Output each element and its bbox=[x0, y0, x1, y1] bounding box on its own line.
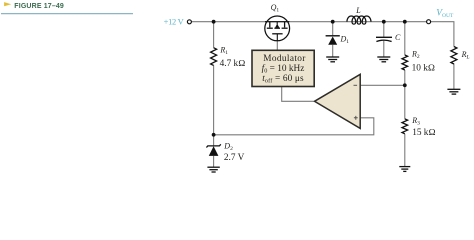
wire: D2 cathode to ground bbox=[213, 156, 215, 167]
svg-text:C: C bbox=[395, 33, 401, 42]
resistor RL bbox=[451, 47, 457, 65]
ground under C bbox=[377, 57, 390, 62]
wire: R3 lower lead to ground bbox=[404, 134, 406, 167]
svg-text:R3: R3 bbox=[411, 116, 420, 127]
figure title underline bbox=[1, 13, 133, 15]
svg-text:L: L bbox=[355, 6, 361, 15]
node: +12V input terminal bbox=[187, 20, 191, 24]
svg-text:10 kΩ: 10 kΩ bbox=[412, 63, 435, 73]
junction: zener reference node bbox=[212, 133, 216, 137]
wire: top rail from +12V terminal to RL corner bbox=[192, 22, 454, 47]
svg-text:2.7 V: 2.7 V bbox=[224, 153, 245, 163]
svg-text:4.7 kΩ: 4.7 kΩ bbox=[220, 59, 246, 69]
op-amp - sign bbox=[354, 84, 358, 86]
wire: D1 lower lead to ground bbox=[332, 45, 334, 57]
svg-text:VOUT: VOUT bbox=[436, 8, 454, 18]
wire: op-amp output to modulator bbox=[282, 87, 314, 102]
ground under RL bbox=[447, 89, 460, 94]
wire: R2 lower lead / R3 upper lead bbox=[404, 70, 406, 119]
inductor L bbox=[347, 16, 371, 24]
wire: RL lower lead to ground bbox=[453, 64, 455, 90]
svg-text:D2: D2 bbox=[223, 142, 233, 153]
svg-text:R2: R2 bbox=[411, 49, 420, 60]
zener diode D2 bbox=[206, 144, 220, 156]
svg-text:RL: RL bbox=[461, 50, 470, 61]
resistor R2 bbox=[402, 55, 408, 70]
op-amp + sign bbox=[354, 116, 358, 120]
op-amp U2 bbox=[315, 74, 361, 128]
wire: R2 upper lead bbox=[404, 22, 406, 55]
svg-text:Modulator: Modulator bbox=[263, 54, 306, 64]
capacitor C bbox=[376, 37, 392, 41]
junction: R2 tap bbox=[403, 20, 407, 24]
junction: C tap bbox=[382, 20, 386, 24]
wire: R1 bottom to reference node bbox=[213, 65, 215, 135]
ground under D1 bbox=[326, 57, 339, 62]
wire: modulator gate lead below Q1 bbox=[276, 41, 278, 51]
svg-text:15 kΩ: 15 kΩ bbox=[412, 128, 435, 138]
ground under R3 bbox=[399, 167, 410, 172]
svg-text:FIGURE 17–49: FIGURE 17–49 bbox=[14, 3, 64, 10]
wire: R1 branch upper lead bbox=[213, 22, 215, 48]
diode D1 bbox=[326, 36, 340, 45]
svg-text:f0 = 10 kHz: f0 = 10 kHz bbox=[262, 63, 305, 75]
wire: C upper lead bbox=[383, 22, 385, 37]
transistor Q1 bbox=[265, 16, 290, 41]
svg-text:Q1: Q1 bbox=[271, 3, 280, 14]
junction: R1 tap on +12V rail bbox=[212, 20, 216, 24]
resistor R1 bbox=[211, 48, 217, 66]
wire: D2 anode lead bbox=[213, 135, 215, 146]
wire: op-amp - input to divider node bbox=[360, 84, 405, 86]
node: VOUT terminal bbox=[427, 20, 431, 24]
ground under D2 bbox=[207, 167, 219, 172]
wire: C lower lead to ground bbox=[383, 41, 385, 57]
modulator U1 box bbox=[252, 50, 314, 86]
wire: D1 upper lead bbox=[332, 22, 334, 36]
svg-text:R1: R1 bbox=[219, 46, 228, 57]
svg-text:+12 V: +12 V bbox=[164, 16, 185, 26]
resistor R3 bbox=[402, 119, 408, 134]
svg-text:D1: D1 bbox=[340, 34, 350, 45]
wire: reference node to op-amp + input bbox=[214, 118, 374, 135]
figure title marker bbox=[4, 2, 11, 6]
junction: D1 tap bbox=[331, 20, 335, 24]
junction: R2/R3 divider node bbox=[403, 83, 407, 87]
